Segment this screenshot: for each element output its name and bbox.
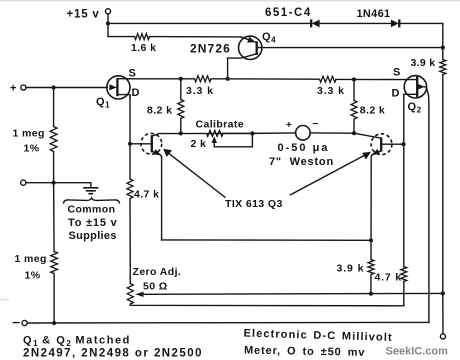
node emitter link right: [369, 238, 373, 242]
meter 0-50ua: [252, 126, 354, 141]
terminal +15v: [105, 9, 110, 24]
svg-text:+15 v: +15 v: [67, 8, 100, 20]
wire Q4 emitter drop to S rail: [227, 58, 229, 79]
svg-text:0-50 μa: 0-50 μa: [278, 142, 330, 154]
svg-text:To ±15 v: To ±15 v: [68, 217, 118, 229]
wire mid input to ground: [26, 182, 91, 184]
svg-text:S: S: [129, 68, 137, 80]
svg-text:2N2497, 2N2498 or 2N2500: 2N2497, 2N2498 or 2N2500: [23, 347, 203, 359]
svg-text:3.3 k: 3.3 k: [317, 85, 345, 97]
wire Q3L emitter drop: [161, 157, 163, 240]
resistor 3.3k right: [320, 76, 337, 82]
brace over Common: [64, 198, 120, 203]
wire emitter link rail y=240: [162, 239, 371, 241]
svg-text:+: +: [286, 120, 292, 131]
svg-text:Q1: Q1: [96, 96, 110, 110]
svg-text:1 meg: 1 meg: [13, 128, 45, 140]
resistor zero adj 50 ohm: [127, 284, 133, 305]
svg-text:Meter, O to ±50 mv: Meter, O to ±50 mv: [244, 345, 365, 359]
svg-text:+: +: [10, 83, 17, 95]
svg-text:2 k: 2 k: [191, 138, 207, 150]
svg-text:Common: Common: [68, 203, 116, 215]
resistor 1 meg top: [50, 88, 57, 183]
wire Q3R emitter drop: [370, 157, 372, 260]
resistor 8.2k right: [351, 80, 357, 134]
wire +15 feed down to 1.6k rail: [108, 23, 135, 36]
svg-text:Q1 & Q2 Matched: Q1 & Q2 Matched: [23, 335, 131, 349]
svg-text:Q2: Q2: [408, 101, 422, 115]
svg-text:3.9 k: 3.9 k: [411, 57, 436, 69]
svg-text:1%: 1%: [24, 143, 40, 155]
wire S rail y=78.8: [128, 78, 195, 80]
transistor Q3 left (dashed can): [130, 133, 162, 157]
wire top rail y=23.4: [108, 22, 312, 24]
wire Q1 drain drop: [129, 96, 131, 179]
node top-left junction: [106, 21, 110, 25]
svg-text:Zero Adj.: Zero Adj.: [133, 266, 182, 278]
svg-text:Q4: Q4: [262, 31, 276, 45]
wire + input to Q1 gate: [26, 87, 107, 89]
wire Q2 drain drop: [403, 96, 405, 267]
svg-text:1 meg: 1 meg: [15, 253, 47, 265]
wire bottom rail: [27, 321, 429, 324]
resistor 1 meg bottom: [51, 183, 58, 323]
node Q3L base junction: [128, 142, 132, 146]
wire calibrate right to node: [223, 132, 252, 134]
resistor 4.7k right: [401, 267, 407, 282]
node 8.2kL bottom: [179, 131, 183, 135]
wire 4.7kL to zero adj: [129, 199, 131, 284]
svg-text:7" Weston: 7" Weston: [269, 156, 334, 168]
svg-text:4.7 k: 4.7 k: [375, 271, 402, 283]
svg-text:S: S: [393, 67, 401, 79]
svg-text:TIX 613 Q3: TIX 613 Q3: [225, 198, 283, 210]
node 3.9kB bottom: [369, 292, 373, 296]
node Q4-emitter / S-rail junction: [226, 77, 230, 81]
terminal + input: [10, 83, 26, 95]
node 8.2kL top: [179, 77, 183, 81]
transistor Q1 (FET): [107, 76, 131, 99]
resistor 3.9k top-right: [440, 60, 446, 75]
svg-text:Electronic D-C Millivolt: Electronic D-C Millivolt: [243, 328, 392, 344]
wire meter rail left: [159, 132, 253, 134]
svg-text:1%: 1%: [25, 270, 41, 282]
wiper calibrate (arrow up + return wire): [212, 133, 253, 146]
node right rail / wiper line: [441, 291, 445, 295]
resistor 3.9k bottom: [368, 260, 374, 275]
svg-text:8.2 k: 8.2 k: [360, 105, 385, 117]
diode 1N461: [391, 19, 443, 27]
arrow to Q3 right: [291, 152, 371, 195]
node calibrate right: [250, 131, 254, 135]
svg-text:4.7 k: 4.7 k: [134, 189, 159, 201]
resistor 1.6k: [135, 34, 150, 40]
node 1meg bottom rail: [52, 321, 56, 325]
svg-text:651-C4: 651-C4: [265, 7, 312, 19]
wire 4.7kR bottom corner to zero-adj bottom: [130, 282, 404, 306]
wire right rail 3.9k to bottom node: [442, 75, 444, 294]
node Q4 collector / right rail: [441, 46, 445, 50]
resistor 4.7k left: [127, 179, 133, 199]
terminal bottom right: [440, 334, 445, 339]
svg-text:50 Ω: 50 Ω: [143, 281, 168, 293]
transistor Q2 (FET): [404, 76, 429, 323]
node 8.2kR top: [352, 77, 356, 81]
svg-text:3.3 k: 3.3 k: [186, 85, 214, 97]
svg-text:8.2 k: 8.2 k: [147, 105, 172, 117]
svg-text:3.9 k: 3.9 k: [337, 262, 365, 274]
transistor Q4 2N726: [228, 36, 443, 59]
wire right rail top corner down to 3.9k: [442, 23, 444, 59]
diode 651-C4: [311, 19, 390, 27]
wire S rail mid: [211, 78, 320, 80]
svg-text:D: D: [132, 87, 141, 99]
terminal - input: [14, 320, 28, 325]
svg-text:2N726: 2N726: [190, 42, 231, 56]
node meter right / Q3R collector: [352, 131, 356, 135]
ground symbol: [83, 183, 98, 194]
node Q3R base / Q2 drain line: [401, 142, 405, 146]
wire 1.6k to Q4 emitter: [150, 36, 241, 38]
node mid input / 1meg junction: [52, 181, 56, 185]
resistor calibrate 2k: [207, 130, 224, 136]
arrow to Q3 left: [163, 149, 225, 197]
terminal mid input: [21, 180, 26, 185]
node input / 1meg junction: [52, 85, 56, 89]
wiper zero adj arrow + line to right rail: [135, 292, 443, 297]
svg-text:Supplies: Supplies: [69, 230, 117, 242]
resistor 3.3k left: [195, 76, 212, 82]
transistor Q3 right (dashed can): [354, 133, 403, 157]
wire right rail bottom to terminal: [442, 293, 444, 333]
svg-text:D: D: [392, 88, 401, 100]
wire 3.9kB bottom to node: [370, 275, 372, 294]
svg-text:1.6 k: 1.6 k: [131, 42, 156, 54]
wire S rail to Q2: [336, 78, 417, 80]
svg-text:1N461: 1N461: [357, 8, 391, 20]
svg-text:–: –: [313, 117, 319, 129]
svg-text:SeekIC.com: SeekIC.com: [386, 345, 449, 357]
resistor 8.2k left: [178, 79, 184, 134]
svg-text:Calibrate: Calibrate: [196, 118, 245, 130]
